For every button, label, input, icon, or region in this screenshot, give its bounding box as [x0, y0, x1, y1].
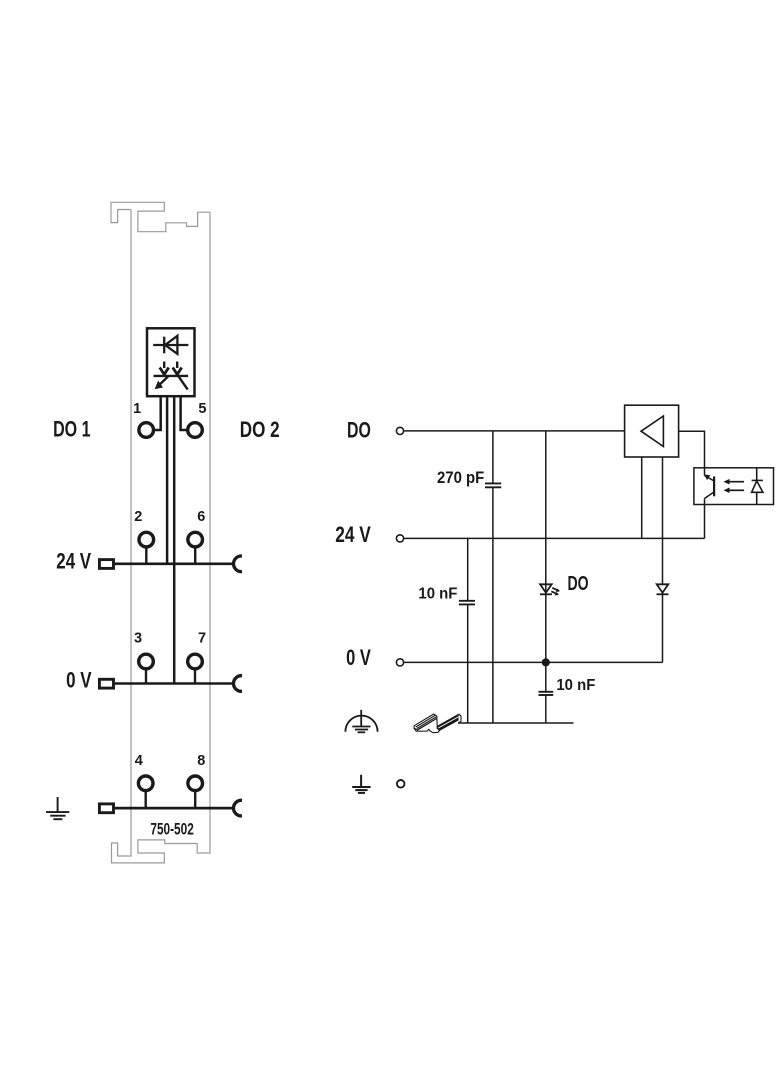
terminal 1 — [139, 423, 154, 438]
driver triangle — [641, 416, 663, 447]
stub terminal 3 — [145, 669, 147, 683]
svg-text:1: 1 — [133, 401, 141, 417]
wire stub terminal 1 — [155, 429, 162, 432]
wire V4: freewheel diode branch — [662, 457, 664, 662]
0V row: terminal 3 — [139, 654, 154, 669]
wire line D to terminal 5 — [179, 396, 182, 430]
svg-text:DO: DO — [347, 417, 371, 442]
terminal 5 — [188, 423, 203, 438]
terminal 8 — [188, 776, 203, 791]
wire line A to terminal 1 — [159, 396, 162, 430]
LED DO indicator — [540, 584, 559, 594]
optocoupler LED diode — [752, 468, 763, 505]
node 0V input circle — [396, 659, 403, 666]
functional earth symbol (bottom) — [352, 775, 370, 793]
stub terminal 6 — [194, 548, 196, 564]
0V bus wire — [115, 682, 232, 685]
stub terminal 7 — [194, 669, 196, 683]
wire V3: status LED branch — [545, 431, 547, 723]
DIN rail 3D symbol — [414, 714, 461, 733]
stub terminal 4 — [144, 791, 146, 808]
LED symbol with arrows inside LED box — [154, 362, 189, 390]
wire line B (24V feed) — [166, 396, 169, 564]
svg-text:5: 5 — [198, 401, 206, 417]
wire V1: 270pF branch — [492, 431, 494, 723]
earth row: terminal 4 — [138, 776, 153, 791]
24V row: terminal 2 — [139, 532, 154, 547]
phototransistor — [705, 468, 715, 539]
stub terminal 8 — [194, 791, 196, 808]
24V bus wire — [115, 562, 232, 565]
output driver box — [625, 405, 679, 457]
svg-text:3: 3 — [134, 630, 142, 646]
node DO input circle — [396, 427, 403, 434]
optocoupler box — [694, 468, 774, 505]
svg-text:4: 4 — [135, 753, 143, 769]
svg-text:6: 6 — [197, 509, 205, 525]
terminal 6 — [188, 532, 203, 547]
junction node on 0V — [542, 658, 550, 666]
node 24V input circle — [396, 535, 403, 542]
svg-text:0 V: 0 V — [346, 645, 371, 670]
svg-text:DO 2: DO 2 — [240, 417, 280, 442]
capacitor 270 pF — [485, 483, 501, 487]
diode D (points left) inside LED box — [153, 336, 188, 354]
svg-text:10 nF: 10 nF — [556, 677, 595, 694]
wire V5: amp left leg — [641, 457, 643, 538]
svg-text:24 V: 24 V — [335, 522, 371, 547]
svg-text:DO: DO — [568, 573, 589, 595]
earth jumper contact arc — [234, 800, 242, 816]
wire V2: 10nF branch — [467, 538, 469, 723]
svg-text:2: 2 — [134, 509, 142, 525]
24V jumper contact arc — [234, 556, 242, 572]
svg-text:270 pF: 270 pF — [437, 469, 484, 487]
wire amp output — [679, 431, 705, 468]
chassis ground symbol (arc earth) — [345, 710, 377, 732]
0V power contact square — [99, 679, 113, 688]
LED indicator box — [147, 328, 195, 396]
DO wire — [404, 430, 624, 432]
0V jumper contact arc — [234, 676, 242, 692]
wire line C (0V feed) — [173, 396, 176, 683]
stub terminal 2 — [145, 548, 147, 564]
svg-text:8: 8 — [197, 753, 205, 769]
module earth ground symbol — [46, 797, 69, 819]
24V power contact square — [99, 560, 113, 569]
terminal 7 — [188, 654, 203, 669]
earth bus wire — [115, 807, 232, 810]
24V wire — [404, 537, 704, 539]
earth terminal circle — [397, 780, 405, 788]
svg-text:750-502: 750-502 — [150, 819, 193, 838]
svg-text:10 nF: 10 nF — [418, 586, 457, 603]
module outline 750-502 housing profile — [111, 202, 210, 863]
capacitor 10 nF — [459, 601, 475, 605]
svg-text:7: 7 — [198, 630, 206, 646]
rail equipotential line — [458, 722, 574, 724]
0V wire — [404, 661, 662, 663]
wire stub terminal 5 — [179, 429, 186, 432]
svg-text:24 V: 24 V — [56, 549, 91, 574]
light arrows — [728, 482, 744, 491]
svg-text:DO 1: DO 1 — [53, 417, 90, 442]
capacitor 10 nF (lower) — [539, 692, 554, 695]
internal feed lines from LED box to terminals — [155, 396, 186, 683]
diode (freewheel) — [657, 584, 669, 594]
svg-text:0 V: 0 V — [66, 668, 91, 693]
earth power contact square — [99, 804, 113, 813]
